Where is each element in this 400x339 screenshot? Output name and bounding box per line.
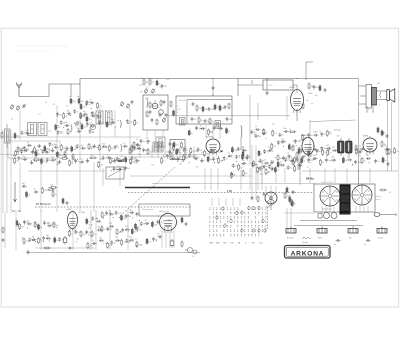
- svg-text:8n: 8n: [157, 233, 159, 235]
- svg-text:25µ: 25µ: [280, 141, 283, 143]
- svg-text:3n: 3n: [244, 157, 246, 159]
- svg-text:220: 220: [195, 151, 198, 153]
- matrix labels: [209, 242, 263, 245]
- svg-text:0,5: 0,5: [135, 239, 138, 241]
- ground: [26, 250, 30, 254]
- svg-text:0,1: 0,1: [389, 192, 391, 194]
- labels EL84: [299, 90, 322, 105]
- bottom row d: [101, 209, 141, 221]
- svg-text:100: 100: [57, 127, 60, 129]
- svg-text:5n: 5n: [290, 149, 292, 151]
- pilot lamp: [374, 213, 396, 217]
- svg-text:0,25: 0,25: [45, 149, 49, 151]
- wire verticals: [250, 95, 258, 165]
- left labels: [11, 102, 141, 164]
- parts above matrix: [251, 192, 266, 203]
- svg-text:EL84: EL84: [290, 87, 296, 89]
- wire B+: [358, 79, 360, 186]
- svg-text:47k: 47k: [272, 124, 275, 126]
- svg-text:40: 40: [135, 157, 137, 159]
- mains selector: [352, 185, 372, 205]
- terminal cluster: [384, 146, 398, 155]
- svg-text:8n: 8n: [105, 111, 107, 113]
- svg-text:0,1: 0,1: [200, 150, 203, 152]
- svg-text:a0: a0: [69, 96, 71, 98]
- right column parts: [377, 127, 389, 167]
- resistor pair: [141, 78, 154, 86]
- connector Erde: [317, 226, 327, 240]
- svg-text:500: 500: [60, 131, 63, 133]
- column 300: [298, 148, 304, 170]
- input divider: [69, 96, 91, 105]
- svg-text:25µ: 25µ: [217, 152, 220, 154]
- svg-text:5n: 5n: [385, 160, 387, 162]
- svg-text:5n: 5n: [212, 121, 214, 123]
- FM box pins: [147, 130, 163, 137]
- svg-text:40: 40: [66, 105, 68, 107]
- labels right mid: [265, 124, 339, 151]
- bottom row b: [22, 235, 65, 245]
- tube EABC80: [301, 134, 314, 157]
- cluster 300s: [301, 130, 331, 141]
- wires box to tube: [206, 125, 220, 139]
- power transformer: [340, 185, 350, 214]
- row 170-214 upper: [168, 147, 215, 157]
- svg-text:40: 40: [100, 116, 102, 118]
- bottom row f: [99, 237, 142, 249]
- svg-text:12k: 12k: [242, 160, 245, 162]
- svg-text:70: 70: [139, 214, 141, 216]
- svg-text:30p: 30p: [328, 160, 331, 162]
- band row D: [14, 154, 140, 168]
- left edge verticals: [3, 130, 11, 213]
- svg-text:10n: 10n: [216, 159, 219, 161]
- svg-text:12k: 12k: [160, 222, 163, 224]
- converter box: [176, 96, 232, 124]
- svg-text:100: 100: [384, 146, 387, 148]
- antenna: [16, 83, 22, 97]
- svg-text:0,25: 0,25: [109, 245, 113, 247]
- switch box: [139, 204, 190, 216]
- svg-text:30p: 30p: [164, 212, 167, 214]
- mid horizontals: [128, 157, 252, 176]
- svg-text:100: 100: [119, 232, 122, 234]
- band row C1: [17, 142, 103, 154]
- svg-text:1b: 1b: [70, 132, 72, 134]
- svg-text:3n: 3n: [359, 146, 361, 148]
- bottom col g: [68, 230, 85, 238]
- svg-text:25µ: 25µ: [129, 121, 132, 123]
- svg-text:1k: 1k: [132, 151, 134, 153]
- svg-text:70: 70: [268, 147, 270, 149]
- svg-text:5n: 5n: [112, 161, 114, 163]
- svg-text:10n: 10n: [139, 84, 142, 86]
- svg-text:100: 100: [83, 234, 86, 236]
- wires into matrix: [212, 198, 240, 206]
- psu bottom wires: [294, 221, 363, 226]
- grid parts: [308, 83, 319, 90]
- svg-text:1a: 1a: [148, 116, 150, 118]
- svg-text:2a: 2a: [191, 133, 193, 135]
- svg-text:40: 40: [134, 231, 136, 233]
- svg-text:30p: 30p: [129, 209, 132, 211]
- svg-text:67 02: 67 02: [334, 128, 341, 132]
- tube pins: [162, 231, 174, 249]
- svg-text:16: 16: [280, 164, 282, 166]
- bottom col c2: [85, 227, 102, 238]
- svg-text:2k: 2k: [307, 167, 309, 169]
- row 272-300 lower: [271, 138, 301, 150]
- svg-text:0,1: 0,1: [104, 229, 107, 231]
- svg-text:0,1: 0,1: [152, 82, 155, 84]
- psu inner wires: [322, 206, 368, 213]
- column 80-99 top: [80, 99, 102, 110]
- svg-text:100: 100: [151, 165, 154, 167]
- svg-text:Bereich: Bereich: [375, 198, 381, 201]
- sparse left parts: [14, 130, 30, 139]
- svg-text:30p: 30p: [67, 110, 70, 112]
- antenna coil: [1, 124, 10, 148]
- svg-text:0,1/500: 0,1/500: [79, 212, 85, 214]
- svg-text:50n: 50n: [99, 237, 102, 239]
- svg-text:500: 500: [220, 161, 223, 163]
- col 233-248 a: [231, 146, 246, 153]
- tube ECC: [160, 211, 177, 233]
- svg-text:500: 500: [82, 116, 85, 118]
- bandfilter outline: [8, 141, 60, 158]
- svg-text:30p: 30p: [329, 133, 332, 135]
- speaker wires: [388, 101, 392, 150]
- bottom labels: [52, 212, 178, 247]
- sparse parts: [255, 130, 267, 138]
- parts between boxes: [170, 101, 175, 117]
- svg-text:12k: 12k: [164, 86, 167, 88]
- box labels: [177, 100, 186, 114]
- flag part: [221, 150, 224, 153]
- vertical 262: [261, 160, 263, 190]
- svg-text:3n: 3n: [117, 147, 119, 149]
- svg-text:25µ: 25µ: [19, 148, 22, 150]
- svg-text:12k: 12k: [199, 108, 202, 110]
- svg-text:5n: 5n: [176, 221, 178, 223]
- band row C2: [102, 143, 142, 152]
- svg-text:50n: 50n: [283, 128, 286, 130]
- svg-text:8n: 8n: [288, 160, 290, 162]
- svg-text:4,7: 4,7: [94, 234, 97, 236]
- wire: [293, 85, 297, 93]
- svg-text:0b: 0b: [77, 96, 79, 98]
- svg-text:1b: 1b: [310, 135, 312, 137]
- svg-text:220: 220: [179, 164, 182, 166]
- svg-text:0,25: 0,25: [26, 241, 30, 243]
- dashed bus bottom: [35, 206, 190, 208]
- svg-text:16: 16: [48, 187, 50, 189]
- svg-text:50n: 50n: [17, 136, 20, 138]
- arrow down: [14, 182, 17, 202]
- svg-text:2a: 2a: [150, 152, 152, 154]
- svg-text:EL95: EL95: [67, 209, 73, 211]
- svg-text:10n: 10n: [205, 109, 208, 111]
- svg-text:5n: 5n: [101, 148, 103, 150]
- mid verticals: [132, 146, 194, 158]
- svg-text:10n: 10n: [51, 157, 54, 159]
- ARKONA nameplate: [285, 246, 331, 259]
- svg-text:150: 150: [44, 190, 47, 192]
- svg-text:1k: 1k: [265, 132, 267, 134]
- cathode parts: [297, 103, 304, 122]
- svg-text:10n: 10n: [99, 106, 102, 108]
- svg-text:5n: 5n: [310, 153, 312, 155]
- svg-text:5n: 5n: [207, 121, 209, 123]
- svg-text:4: 4: [368, 109, 369, 111]
- left edge parts: [2, 227, 5, 243]
- verticals 252-256: [252, 145, 256, 200]
- parts: [242, 151, 248, 161]
- svg-text:1b: 1b: [56, 240, 58, 242]
- svg-text:3n: 3n: [303, 151, 305, 153]
- svg-text:40: 40: [81, 145, 83, 147]
- bandfilter cans: [28, 123, 48, 136]
- svg-text:40: 40: [148, 78, 150, 80]
- model number: [334, 128, 341, 132]
- parts below: [286, 187, 294, 197]
- parts right of tube: [181, 217, 187, 227]
- detector cluster a: [272, 128, 296, 137]
- svg-text:70: 70: [139, 229, 141, 231]
- svg-text:ECH 81: ECH 81: [179, 100, 186, 102]
- svg-text:VEB Stern-Radio Sonneberg Funk: VEB Stern-Radio Sonneberg Funkwerk: [15, 50, 54, 53]
- svg-text:16: 16: [249, 157, 251, 159]
- FM tuner box: [143, 95, 168, 130]
- svg-text:Eas: Eas: [259, 243, 262, 245]
- svg-text:12k: 12k: [76, 238, 79, 240]
- svg-text:500: 500: [128, 216, 131, 218]
- svg-text:30p: 30p: [111, 119, 114, 121]
- verticals mid: [205, 168, 258, 190]
- svg-text:30p: 30p: [54, 144, 57, 146]
- svg-text:100: 100: [97, 227, 100, 229]
- label 50Hz: [306, 177, 314, 181]
- svg-text:2a: 2a: [296, 169, 298, 171]
- svg-text:10n: 10n: [210, 132, 213, 134]
- svg-text:0,1: 0,1: [137, 145, 140, 147]
- parts 258-272 b: [259, 166, 276, 175]
- svg-text:220: 220: [331, 157, 334, 159]
- svg-text:2k: 2k: [272, 151, 274, 153]
- svg-text:100: 100: [358, 151, 361, 153]
- row below: [146, 233, 162, 244]
- mid row: [109, 156, 135, 165]
- svg-text:1507: 1507: [177, 109, 181, 111]
- svg-text:8n: 8n: [290, 168, 292, 170]
- svg-text:150: 150: [84, 127, 87, 129]
- EM80 cluster: [284, 192, 296, 207]
- labels top cluster: [139, 79, 169, 94]
- svg-text:70: 70: [90, 99, 92, 101]
- svg-text:2k: 2k: [28, 194, 30, 196]
- svg-text:220: 220: [377, 83, 380, 85]
- svg-text:2k: 2k: [264, 160, 266, 162]
- svg-text:150: 150: [185, 158, 188, 160]
- svg-text:25µ: 25µ: [109, 125, 112, 127]
- svg-text:12k: 12k: [313, 132, 316, 134]
- bottom verticals: [16, 210, 128, 250]
- electrolytic: [63, 236, 67, 245]
- svg-text:Normale: Normale: [375, 195, 381, 198]
- svg-text:100: 100: [166, 151, 169, 153]
- svg-text:3n: 3n: [88, 104, 90, 106]
- wires: [388, 148, 392, 171]
- svg-text:220: 220: [140, 92, 143, 94]
- svg-text:50n: 50n: [91, 146, 94, 148]
- svg-text:0,1: 0,1: [59, 154, 62, 156]
- pickup lead: [302, 237, 310, 244]
- svg-text:16: 16: [76, 111, 78, 113]
- svg-text:1k: 1k: [71, 163, 73, 165]
- svg-text:10n: 10n: [229, 119, 232, 121]
- svg-text:1b: 1b: [95, 117, 97, 119]
- svg-text:4,7: 4,7: [163, 161, 166, 163]
- bottom wires: [35, 247, 95, 250]
- resistor column: [292, 145, 298, 166]
- svg-text:UKW: UKW: [145, 98, 149, 100]
- parts below: [62, 198, 68, 206]
- svg-text:5n: 5n: [88, 221, 90, 223]
- svg-text:Klangregister: Klangregister: [142, 208, 154, 211]
- svg-text:100: 100: [234, 150, 237, 152]
- svg-text:8n: 8n: [254, 132, 256, 134]
- left edge vertical: [4, 212, 6, 248]
- band row B1b: [57, 128, 95, 135]
- svg-text:220: 220: [109, 223, 112, 225]
- converter parts: [192, 102, 230, 113]
- svg-text:25µ: 25µ: [79, 159, 82, 161]
- svg-text:0,5: 0,5: [362, 158, 365, 160]
- svg-text:0,5: 0,5: [396, 151, 399, 153]
- svg-text:0,25: 0,25: [26, 130, 30, 132]
- svg-text:12k: 12k: [135, 162, 138, 164]
- svg-text:Ta: Ta: [192, 256, 194, 258]
- bottom row a: [19, 220, 59, 230]
- ratio detector bobbins: [338, 138, 353, 156]
- connector 2.Lspr: [377, 226, 387, 240]
- svg-text:BV 500 Ea 12: BV 500 Ea 12: [36, 203, 51, 206]
- svg-text:30p: 30p: [315, 95, 318, 97]
- tube EZ80: [363, 136, 377, 155]
- EM80 down wires: [287, 208, 291, 228]
- coupling cap: [266, 79, 269, 96]
- col 233-248 b: [232, 160, 247, 171]
- svg-text:EZ80: EZ80: [363, 136, 369, 138]
- svg-text:47k: 47k: [306, 100, 309, 102]
- svg-text:0,5: 0,5: [123, 143, 126, 145]
- row below FM box: [133, 138, 179, 148]
- trimmers near FM box: [120, 100, 134, 109]
- svg-text:150: 150: [83, 107, 86, 109]
- top bus right: [238, 77, 359, 80]
- svg-text:16: 16: [285, 158, 287, 160]
- svg-text:25µ: 25µ: [22, 156, 25, 158]
- svg-text:40: 40: [38, 154, 40, 156]
- band row B0: [56, 109, 96, 119]
- transformer secondary wires: [367, 106, 374, 112]
- svg-text:17 00: 17 00: [268, 85, 273, 87]
- svg-text:5n: 5n: [334, 244, 336, 246]
- svg-text:500: 500: [81, 101, 84, 103]
- svg-text:1k: 1k: [322, 162, 324, 164]
- svg-text:2a: 2a: [280, 162, 282, 164]
- verticals left mid: [20, 162, 94, 212]
- svg-text:150: 150: [146, 138, 149, 140]
- band row B2: [98, 119, 138, 128]
- coil can: [156, 137, 165, 147]
- svg-text:10n: 10n: [90, 155, 93, 157]
- svg-text:50n: 50n: [111, 148, 114, 150]
- svg-text:12k: 12k: [137, 226, 140, 228]
- label 1M: [227, 189, 232, 193]
- svg-text:100: 100: [154, 224, 157, 226]
- svg-text:2a: 2a: [55, 194, 57, 196]
- cluster: [230, 170, 248, 179]
- svg-text:30p: 30p: [211, 109, 214, 111]
- svg-text:30p: 30p: [178, 152, 181, 154]
- svg-text:0,1: 0,1: [103, 243, 106, 245]
- pickup symbol: [268, 200, 274, 206]
- svg-text:500: 500: [176, 145, 179, 147]
- svg-text:16: 16: [303, 161, 305, 163]
- transformer wires: [359, 86, 367, 104]
- tube EL84: [290, 87, 304, 113]
- AVC cluster: [22, 183, 57, 198]
- svg-text:1b: 1b: [92, 240, 94, 242]
- svg-text:30p: 30p: [56, 225, 59, 227]
- svg-text:25µ: 25µ: [123, 218, 126, 220]
- headphone jack: [185, 248, 197, 259]
- svg-text:220: 220: [115, 237, 118, 239]
- wire y171: [302, 170, 398, 172]
- svg-text:5n: 5n: [143, 224, 145, 226]
- wire y213: [284, 212, 314, 214]
- svg-text:0,5: 0,5: [192, 151, 195, 153]
- svg-text:220: 220: [21, 226, 24, 228]
- svg-text:0,1: 0,1: [159, 87, 162, 89]
- svg-text:500: 500: [326, 145, 329, 147]
- svg-text:50 Hz: 50 Hz: [306, 177, 314, 181]
- triodes ECC85: [152, 100, 163, 114]
- svg-text:16: 16: [90, 123, 92, 125]
- mid row 4: [252, 157, 299, 168]
- svg-text:MW: MW: [216, 243, 219, 245]
- svg-text:0,5: 0,5: [40, 241, 43, 243]
- svg-text:UKW: UKW: [209, 243, 213, 245]
- svg-text:150: 150: [73, 101, 76, 103]
- svg-text:4,7: 4,7: [217, 107, 220, 109]
- parts: [355, 145, 361, 155]
- parts 258-272: [258, 147, 272, 157]
- svg-text:100: 100: [50, 184, 53, 186]
- capacitor: [364, 239, 370, 246]
- svg-text:500: 500: [337, 136, 340, 138]
- svg-text:1k: 1k: [65, 116, 67, 118]
- svg-text:0,1: 0,1: [287, 153, 290, 155]
- svg-text:Tonader: Tonader: [302, 241, 309, 244]
- svg-text:2a: 2a: [27, 142, 29, 144]
- svg-text:0,5: 0,5: [43, 161, 46, 163]
- svg-text:150: 150: [196, 166, 199, 168]
- svg-text:100: 100: [166, 79, 169, 81]
- svg-text:0,5: 0,5: [38, 113, 41, 115]
- svg-text:12k: 12k: [297, 162, 300, 164]
